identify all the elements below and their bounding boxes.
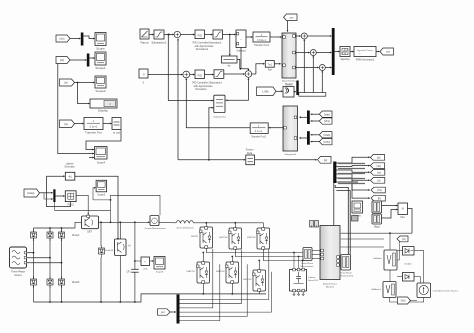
label voltmeter1 (371, 288, 382, 291)
wire (296, 35, 319, 68)
mux Mux3 (296, 81, 298, 96)
diode Diode7 (403, 273, 415, 282)
scope Scope2 (95, 76, 106, 88)
ramp Ramp (140, 29, 149, 39)
label PWLC (67, 204, 74, 206)
wire (336, 156, 369, 199)
wire (76, 195, 89, 215)
label PWM Generator1 (356, 59, 375, 62)
label Diagram (156, 272, 164, 274)
label Scope4 (97, 162, 106, 165)
label IGBT/Diode (191, 236, 199, 238)
mux Mux2 (332, 28, 335, 75)
label RLC branch (308, 277, 319, 282)
svg-text:IGBT/D3: IGBT/D3 (216, 271, 225, 273)
svg-text:Three-Phase: Three-Phase (340, 271, 353, 274)
diode Diode1 (47, 230, 53, 242)
label wt (213, 116, 226, 119)
wire (34, 228, 62, 302)
svg-text:Measurement1: Measurement1 (340, 274, 355, 277)
transfer fcn Transfer Fcn2 (250, 123, 268, 134)
svg-text:CF1: CF1 (126, 272, 131, 274)
wire (276, 90, 283, 92)
wire (134, 260, 154, 262)
logic block OR (283, 87, 294, 98)
svg-text:PID: PID (197, 33, 202, 37)
port marker (352, 216, 359, 222)
svg-text:3-phase: 3-phase (308, 277, 316, 279)
label IGBT/Diode5 (243, 279, 252, 281)
wire (47, 175, 71, 206)
igbt IGBT/Diode1 (197, 262, 210, 284)
label voltmeter (373, 257, 382, 260)
data type block (340, 47, 350, 57)
wire (208, 107, 213, 161)
sum Sum1 (174, 31, 180, 37)
label Mux (401, 217, 406, 219)
svg-text:[is]: [is] (64, 122, 68, 126)
capacitor CF1 (131, 269, 138, 272)
diode Diode3 (31, 277, 37, 289)
svg-text:[w]: [w] (324, 158, 328, 162)
svg-text:Derivative: Derivative (195, 88, 207, 91)
svg-text:Lighted: Lighted (66, 162, 74, 165)
svg-text:IGBT/D2: IGBT/D2 (247, 237, 256, 239)
wire (390, 270, 424, 302)
label IGBT/Diode3 (216, 271, 225, 273)
svg-text:IGBT/D: IGBT/D (191, 236, 199, 238)
ground marks (293, 292, 305, 296)
svg-text:[IVab]: [IVab] (324, 133, 331, 137)
svg-text:Controlled Current Source: Controlled Current Source (433, 290, 459, 293)
igbt IGBT/Diode (200, 227, 213, 249)
svg-text:Derivative1: Derivative1 (196, 48, 209, 51)
svg-text:[IVbc]: [IVbc] (324, 140, 331, 144)
svg-text:GBT: GBT (87, 231, 92, 234)
machine Asynchronous (320, 226, 340, 280)
mux Mux5 (307, 131, 310, 145)
sum Sum3b (245, 71, 252, 78)
goto tag [Phi] (371, 195, 385, 201)
wire (252, 63, 265, 74)
svg-text:Scope2: Scope2 (95, 89, 106, 93)
wire (205, 74, 214, 76)
label Diode6 (405, 264, 413, 266)
scope Diagram (154, 257, 165, 270)
step block (65, 172, 75, 180)
igbt IGBT/Diode5 (253, 270, 266, 292)
label Scope1 (95, 66, 106, 70)
saturation Saturation2 (213, 30, 223, 39)
label Fan (268, 70, 273, 72)
label Ramp (140, 41, 148, 45)
svg-text:Mag1: Mag1 (374, 227, 380, 229)
wire (178, 159, 245, 161)
svg-text:Transfer Fcn1: Transfer Fcn1 (254, 44, 270, 47)
svg-text:Asynchronous: Asynchronous (282, 80, 297, 83)
svg-text:Transfer Fcn2: Transfer Fcn2 (251, 136, 266, 139)
wire (408, 209, 413, 234)
svg-text:Series RLC: Series RLC (308, 279, 319, 282)
from tag [Vbc] (319, 118, 332, 124)
wire (274, 63, 281, 65)
label Transfer Fcn (85, 131, 102, 135)
block PWLC (65, 191, 76, 202)
svg-text:−: − (240, 38, 242, 42)
label IGBT/Diode2 (247, 237, 256, 239)
svg-text:Series RL Branch: Series RL Branch (176, 227, 194, 230)
wire (134, 222, 136, 302)
diode Diode (31, 230, 37, 242)
wire (270, 36, 282, 38)
svg-text:wm: wm (289, 16, 293, 19)
label VI measurement (340, 271, 355, 277)
label Gmin1 (286, 85, 293, 87)
constant 0 (139, 69, 148, 78)
from tag Gate (24, 189, 40, 197)
wire (34, 293, 267, 303)
label convert (340, 59, 349, 61)
svg-text:[w]: [w] (377, 155, 381, 159)
wire (293, 252, 303, 269)
sum Sum4 (310, 50, 316, 56)
label Subsystem (282, 80, 297, 86)
svg-text:Diode5: Diode5 (72, 282, 80, 284)
svg-text:Tm1: Tm1 (267, 64, 272, 66)
label measurement (301, 262, 314, 268)
wire (226, 78, 250, 101)
wire (411, 300, 418, 302)
wire (54, 195, 160, 223)
scope Scope3 (96, 180, 107, 192)
label Vdc (142, 269, 148, 271)
diode Diode2 (59, 230, 65, 242)
to-workspace block (112, 118, 121, 130)
voltmeter V1 (384, 250, 397, 270)
block Tension Delta (246, 155, 255, 165)
svg-text:Diode6: Diode6 (405, 264, 413, 266)
wire (148, 74, 183, 76)
mux Mux6 (398, 203, 408, 215)
terminator pair (310, 221, 319, 228)
voltage measurement block (141, 257, 150, 266)
wire (93, 187, 111, 201)
svg-text:IGBT/D5: IGBT/D5 (243, 279, 252, 281)
diode Diode5 (59, 277, 65, 289)
svg-text:4(t): 4(t) (68, 176, 72, 179)
wire (311, 113, 320, 122)
svg-text:(g): (g) (128, 245, 131, 247)
voltmeter V2 (383, 282, 396, 298)
wire (334, 183, 350, 254)
label Diode10 (105, 250, 114, 252)
svg-text:IGBT/D4: IGBT/D4 (219, 237, 228, 239)
wire (185, 78, 250, 128)
goto tag wm (284, 14, 298, 21)
three-phase source (10, 247, 27, 268)
wire (350, 51, 354, 53)
wire (299, 137, 307, 139)
svg-text:M: M (402, 207, 404, 211)
machine block Subsystem (282, 33, 296, 78)
label IGBT/Diode1 (186, 271, 195, 273)
igbt IGBT/Diode2 (257, 228, 270, 250)
wire (40, 192, 53, 200)
label Constant (143, 82, 145, 85)
label Transfer Fcn1 (254, 44, 270, 47)
svg-text:VoltMeter: VoltMeter (373, 257, 382, 260)
label Display (98, 109, 108, 113)
wire (34, 222, 82, 229)
three-phase VI measurement (341, 255, 351, 271)
label machine (323, 283, 338, 289)
svg-text:Machine: Machine (326, 287, 335, 289)
wire (382, 205, 398, 218)
igbt IGBT/Diode4 (229, 228, 242, 250)
svg-text:dw: dw (227, 65, 230, 68)
scope Scope (95, 33, 106, 46)
svg-text:Scope3: Scope3 (97, 194, 106, 196)
svg-text:Subsystem4: Subsystem4 (213, 116, 226, 119)
wire (206, 223, 263, 228)
svg-text:[G]: [G] (402, 237, 406, 241)
svg-text:[Vbc]: [Vbc] (324, 119, 330, 123)
from tag [w1] (56, 35, 70, 42)
svg-text:Asynchronous: Asynchronous (323, 283, 338, 286)
label Subtract (236, 50, 246, 53)
wire (224, 73, 245, 75)
svg-text:Display: Display (98, 109, 108, 113)
svg-text:Tension: Tension (246, 150, 255, 152)
demux Demux1 (333, 162, 336, 184)
label Transfer Fcn2 (251, 136, 266, 139)
from tag 1.936 (257, 87, 277, 96)
igbt GBT (82, 215, 99, 229)
svg-text:Fan: Fan (268, 70, 273, 72)
wire (203, 283, 259, 294)
block measure (352, 201, 363, 213)
wire (389, 232, 391, 249)
demux Demux2 (177, 295, 180, 324)
svg-text:[Is]: [Is] (377, 170, 381, 174)
goto tag [Te] (370, 163, 384, 169)
wire (99, 221, 150, 223)
svg-text:Signal(s) Pulses: Signal(s) Pulses (357, 50, 374, 52)
label GBT (87, 231, 92, 234)
pid controller PID1 (195, 30, 205, 39)
wire (397, 251, 424, 284)
wire (303, 39, 323, 92)
wire (75, 123, 112, 125)
svg-text:[Te]: [Te] (377, 164, 381, 168)
svg-text:pul: pul (386, 50, 390, 54)
label Mag1 (374, 227, 380, 229)
label Diode5 (72, 282, 80, 284)
display Display (90, 99, 117, 108)
three-phase measurement (303, 248, 312, 261)
label To Workspace (113, 131, 120, 135)
mux Mux4 (307, 111, 310, 125)
sum Sum2 (183, 71, 190, 78)
transfer fcn Transfer Fcn (84, 118, 103, 130)
wire (376, 51, 380, 53)
from tag [Vab] (319, 111, 332, 117)
wire (312, 251, 320, 259)
scope Scope1 (95, 52, 106, 65)
goto tag small (397, 236, 408, 242)
svg-text:0.1s+1: 0.1s+1 (255, 130, 263, 133)
label IGBT2 (128, 245, 131, 247)
wire (27, 252, 63, 264)
label measure (353, 216, 362, 218)
wire (269, 127, 283, 129)
mux Mux (81, 33, 84, 46)
svg-text:PWLC: PWLC (67, 204, 74, 206)
svg-text:[Vs]: [Vs] (377, 188, 382, 192)
svg-text:Generator: Generator (64, 166, 75, 169)
svg-text:Current Measurement: Current Measurement (144, 227, 166, 230)
wire (335, 51, 340, 53)
svg-text:[Vab]: [Vab] (324, 112, 330, 116)
wire (100, 222, 102, 302)
svg-text:1.936: 1.936 (262, 89, 269, 93)
goto tag [Vs] (371, 187, 385, 193)
svg-text:-0: -0 (142, 73, 145, 77)
wire (299, 116, 307, 118)
inductor Series RL Branch (176, 221, 194, 223)
svg-text:[Gate]: [Gate] (27, 191, 34, 195)
bus selector2 (372, 214, 382, 224)
wire (258, 249, 303, 270)
svg-text:Subsystem1: Subsystem1 (284, 153, 297, 156)
current measurement (150, 216, 159, 226)
svg-text:PWM Generator1: PWM Generator1 (356, 59, 375, 62)
igbt IGBT2 (115, 239, 127, 256)
svg-text:Scope1: Scope1 (95, 66, 106, 70)
svg-text:[wr]: [wr] (60, 58, 64, 62)
wire (255, 159, 317, 161)
wire (181, 34, 195, 36)
subsystem wt (214, 95, 225, 112)
wire (341, 233, 412, 247)
label PID Controller2 (192, 82, 222, 92)
wire (75, 82, 95, 105)
wire (159, 221, 176, 224)
label Scope (96, 47, 105, 51)
wire (294, 91, 296, 93)
from tag [wr] (56, 57, 70, 64)
label current source (433, 290, 459, 293)
wire (149, 34, 154, 36)
label Current Measurement (144, 227, 166, 230)
label Subsystem3 (284, 153, 297, 156)
wire (311, 134, 320, 143)
svg-text:[w1]: [w1] (60, 37, 65, 41)
wire (70, 36, 95, 39)
goto tag [Ir] (371, 178, 385, 184)
label Tension (246, 150, 255, 155)
wire (75, 176, 119, 239)
sum Sum3 (301, 33, 307, 39)
transfer fcn Transfer Fcn1 (253, 32, 270, 42)
label source (11, 271, 25, 277)
svg-text:VoltMeter1: VoltMeter1 (371, 288, 382, 291)
from tag [w] (60, 79, 75, 86)
svg-text:Transfer Fcn: Transfer Fcn (85, 131, 102, 135)
wire (205, 34, 213, 36)
gate collector block (299, 93, 326, 97)
wire (397, 241, 400, 260)
svg-text:Signal(s): Signal(s) (340, 59, 349, 61)
wire (70, 57, 95, 61)
label Series RL Branch (176, 227, 194, 230)
wire (56, 195, 65, 197)
goto tag [wm] (370, 155, 384, 161)
saturation Saturation1 (154, 30, 164, 39)
torque block Fan (265, 61, 274, 68)
wire (229, 34, 250, 71)
wire (119, 221, 121, 302)
svg-text:0.1s+1: 0.1s+1 (90, 125, 98, 129)
label Saturation1 (151, 41, 167, 45)
svg-text:Delta: Delta (247, 152, 253, 155)
machine block Subsystem3 (283, 106, 298, 151)
label Scope2 (95, 89, 106, 93)
svg-text:pul: pul (161, 310, 165, 314)
gain dw (222, 56, 238, 63)
wire (190, 74, 195, 76)
diode Diode10 (99, 246, 105, 258)
controlled current source (417, 283, 431, 298)
three-phase RLC branch (290, 268, 307, 292)
svg-text:Scope6: Scope6 (156, 272, 164, 274)
label CF1 (126, 272, 131, 274)
from tag [Iab] (319, 132, 332, 138)
label dw (227, 65, 230, 68)
wire (194, 222, 264, 224)
svg-text:Scope: Scope (96, 47, 105, 51)
from tag [Ibc] (319, 139, 332, 145)
svg-text:[w]: [w] (64, 81, 68, 85)
wire (164, 34, 174, 36)
label Diode2 (72, 235, 80, 237)
goto tag pulse (380, 48, 394, 55)
svg-text:Ramp: Ramp (140, 41, 148, 45)
diode Diode6 (403, 247, 415, 256)
from tag [is] (60, 120, 75, 128)
sum Sum5 (319, 65, 325, 71)
wire (180, 249, 272, 321)
label IGBT/Diode4 (219, 237, 228, 239)
svg-text:Source: Source (14, 274, 22, 277)
igbt IGBT/Diode3 (226, 262, 239, 284)
pwm generator (354, 47, 376, 57)
svg-text:Diode10: Diode10 (105, 250, 114, 252)
from tag GND (398, 297, 411, 304)
wire (86, 130, 121, 159)
wire (170, 311, 176, 313)
svg-text:IGBT/D1: IGBT/D1 (186, 271, 195, 273)
svg-text:Diode2: Diode2 (72, 235, 80, 237)
svg-text:is out: is out (113, 131, 120, 135)
wire (58, 64, 94, 155)
svg-text:[Ir]: [Ir] (377, 178, 380, 182)
wire (177, 39, 179, 160)
pid controller PID2 (195, 70, 205, 79)
wire (287, 21, 289, 32)
svg-text:[Vb]: [Vb] (401, 299, 406, 303)
svg-text:Three-Phase: Three-Phase (301, 262, 314, 265)
